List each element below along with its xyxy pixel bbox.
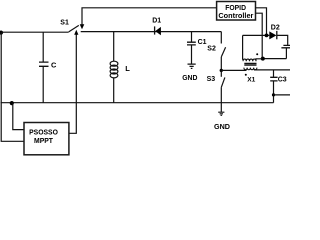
capacitor C1 bottom lead (191, 45, 193, 64)
wire top right of S1 (81, 31, 222, 33)
wire D2 branch horizontal (243, 34, 270, 36)
wire transformer node to C2 (262, 58, 286, 60)
wire load output right (274, 94, 291, 96)
bottom rail (1, 102, 274, 104)
capacitor C3 bottom lead to rail (273, 81, 275, 103)
arrow up at S1 (74, 30, 78, 35)
transformer X1 polarity dot secondary (245, 74, 247, 76)
switch S2 bottom lead (220, 57, 222, 71)
capacitor C2 at right edge (281, 45, 290, 47)
node A (input top-left junction dot) (0, 30, 3, 34)
capacitor C bottom lead (42, 66, 44, 102)
switch S2 top lead (220, 32, 222, 44)
diode D1 (points left) (154, 26, 156, 34)
transformer X1 core (244, 63, 256, 65)
capacitor C top lead (42, 32, 44, 61)
wire secondary to right edge (254, 69, 290, 71)
wire FOPID lower output to transformer node (256, 13, 263, 58)
svg-text:C: C (51, 60, 57, 69)
ground below rail at S3 (220, 103, 222, 112)
svg-text:C1: C1 (198, 39, 207, 46)
switch S1 blade (69, 25, 79, 32)
node bottom-left junction dot (10, 101, 14, 105)
wire middle node to transformer secondary (221, 69, 246, 71)
capacitor C (39, 62, 49, 66)
switch S3 bottom lead (220, 87, 222, 102)
svg-text:D1: D1 (152, 18, 161, 25)
arrow down at S1 (80, 24, 85, 29)
node C3/load junction dot (272, 93, 275, 96)
capacitor C1 (187, 42, 196, 45)
svg-text:C3: C3 (278, 76, 287, 83)
wire left rail vertical down to MPPT input (1, 33, 24, 142)
svg-text:X1: X1 (247, 77, 255, 84)
svg-text:GND: GND (182, 73, 197, 82)
svg-text:GND: GND (214, 122, 230, 131)
switch S2 blade (221, 47, 225, 57)
node S2/S3 junction dot (220, 69, 223, 72)
inductor L coil (110, 61, 118, 66)
capacitor C3 top lead (273, 70, 275, 77)
transformer X1 primary winding (243, 59, 262, 61)
svg-text:PSOSSO: PSOSSO (29, 127, 58, 136)
svg-text:MPPT: MPPT (34, 136, 53, 145)
svg-text:S3: S3 (207, 76, 216, 83)
node transformer/FOPID junction dot (261, 57, 265, 61)
wire D2 cathode to C2 (277, 35, 288, 45)
svg-text:S2: S2 (207, 45, 216, 52)
wire bottom rail to MPPT input (13, 103, 24, 130)
switch S3 top lead (220, 70, 222, 76)
switch S3 blade (221, 77, 225, 87)
wire MPPT output up to S1 (69, 34, 76, 133)
svg-text:L: L (125, 64, 130, 73)
node D2 anode junction dot (265, 34, 269, 38)
transformer X1 primary left lead (242, 35, 244, 59)
wire top left segment (1, 31, 69, 33)
diode D2 (points right) (269, 31, 276, 39)
svg-text:S1: S1 (60, 19, 69, 26)
inductor L bottom lead (113, 78, 115, 103)
ground under C1 (188, 64, 196, 68)
transformer X1 secondary winding (244, 68, 257, 70)
wire FOPID upper output to D2 anode node (256, 8, 267, 36)
svg-text:Controller: Controller (218, 11, 253, 20)
PSOSSO MPPT box (24, 123, 69, 155)
transformer X1 polarity dot primary (256, 53, 258, 55)
capacitor C3 (270, 77, 277, 81)
inductor L top lead (113, 32, 115, 62)
wire S1 gate to FOPID input (82, 8, 217, 25)
capacitor C1 top lead (191, 32, 193, 42)
FOPID Controller box (217, 2, 256, 21)
svg-text:D2: D2 (271, 24, 280, 31)
capacitor C2 bottom lead (285, 48, 287, 59)
